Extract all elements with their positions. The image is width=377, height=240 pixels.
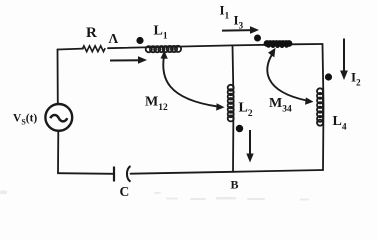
svg-text:R: R: [86, 25, 97, 41]
voltage source Vs(t): [45, 104, 72, 131]
current arrow under L1: [110, 56, 147, 64]
wire left vertical lower: [57, 131, 59, 174]
wire L3 to right corner: [291, 43, 323, 45]
resistor R: [83, 46, 105, 52]
svg-text:B: B: [231, 178, 239, 192]
coupling dot below L2: [236, 125, 243, 132]
current arrow down, middle branch: [246, 130, 253, 163]
mutual coupling arrow M34 (curved, L3 to L4): [267, 48, 313, 105]
wire left vertical upper: [57, 50, 59, 105]
svg-text:C: C: [120, 184, 130, 199]
wire top-left horizontal: [58, 48, 84, 51]
coupling dot near L1: [136, 37, 143, 44]
current arrow I2 (down, right side): [340, 39, 348, 81]
inductor L4 (vertical, right branch): [317, 88, 323, 125]
wire capacitor to node B to right corner: [131, 170, 324, 174]
svg-text:Λ: Λ: [109, 31, 119, 46]
wire bottom left to capacitor: [58, 172, 114, 175]
current arrow I3 at top: [222, 26, 259, 34]
coupling dot near L3: [254, 35, 261, 42]
inductor L2 (vertical, middle branch): [228, 85, 234, 122]
wire right vertical: [323, 44, 324, 170]
capacitor C plates: [113, 167, 115, 182]
wire resistor to junction via L1: [108, 45, 266, 48]
inductor L3 (dark coil, top right): [264, 40, 293, 48]
mutual coupling arrow M12 (curved, L1 to L2): [161, 51, 225, 111]
coupling dot near L4: [325, 73, 332, 80]
inductor L1: [146, 46, 181, 53]
faint bleedthrough smudges at bottom: [0, 191, 309, 201]
wire middle vertical: [233, 45, 234, 171]
